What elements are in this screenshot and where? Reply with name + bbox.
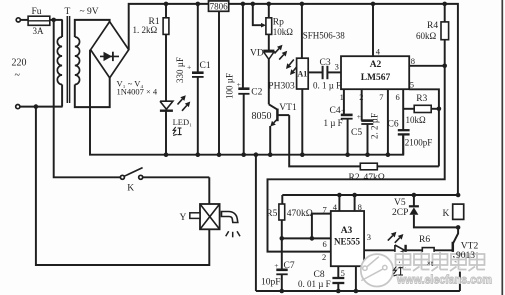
svg-text:8: 8	[358, 202, 362, 212]
svg-text:9013: 9013	[456, 251, 475, 261]
svg-text:5: 5	[341, 268, 345, 278]
svg-text:C2: C2	[251, 87, 262, 97]
svg-text:~ 9V: ~ 9V	[80, 7, 99, 17]
svg-text:470kΩ: 470kΩ	[287, 209, 313, 219]
svg-text:www.elecfans.com: www.elecfans.com	[396, 273, 492, 287]
svg-text:2: 2	[359, 92, 363, 102]
svg-text:4: 4	[376, 46, 381, 56]
svg-text:LM567: LM567	[361, 73, 391, 83]
svg-text:K: K	[127, 183, 134, 193]
svg-text:7806: 7806	[210, 2, 229, 12]
svg-text:C4: C4	[330, 106, 341, 116]
svg-text:6: 6	[323, 239, 327, 249]
svg-text:Fu: Fu	[32, 7, 42, 17]
svg-text:LED₁: LED₁	[173, 117, 193, 127]
svg-text:1N4007 × 4: 1N4007 × 4	[117, 87, 158, 97]
svg-text:+: +	[357, 112, 361, 121]
svg-text:3: 3	[367, 232, 371, 242]
svg-text:1: 1	[340, 92, 344, 102]
svg-text:×t: ×t	[427, 259, 435, 268]
svg-text:NE555: NE555	[334, 237, 361, 247]
svg-text:8: 8	[411, 56, 415, 66]
svg-text:R4: R4	[427, 21, 438, 31]
svg-text:R2: R2	[349, 173, 360, 183]
svg-text:VD: VD	[250, 48, 264, 58]
svg-text:C7: C7	[284, 261, 295, 271]
svg-text:2CP: 2CP	[392, 208, 408, 218]
svg-text:R6: R6	[419, 235, 430, 245]
svg-text:7: 7	[379, 92, 383, 102]
svg-text:4: 4	[333, 202, 338, 212]
svg-text:R3: R3	[416, 94, 427, 104]
svg-text:1 µ F: 1 µ F	[324, 118, 343, 128]
svg-text:+: +	[237, 80, 241, 89]
svg-text:+: +	[274, 261, 278, 270]
svg-text:47kΩ: 47kΩ	[364, 173, 385, 183]
svg-text:C1: C1	[200, 61, 211, 71]
svg-text:Y: Y	[180, 213, 187, 223]
svg-text:5: 5	[410, 80, 414, 90]
svg-text:K: K	[443, 209, 450, 219]
svg-text:A2: A2	[370, 60, 382, 70]
svg-text:A3: A3	[341, 226, 353, 236]
svg-text:+: +	[341, 106, 345, 115]
svg-text:0. 1 µ F: 0. 1 µ F	[313, 81, 341, 91]
svg-text:10pF: 10pF	[261, 277, 281, 287]
svg-text:VT2: VT2	[461, 241, 479, 251]
svg-text:6: 6	[396, 92, 400, 102]
svg-text:220: 220	[12, 58, 27, 69]
svg-text:~: ~	[15, 70, 21, 81]
svg-text:A1: A1	[298, 70, 308, 79]
svg-text:2: 2	[322, 252, 326, 262]
svg-text:60kΩ: 60kΩ	[416, 31, 437, 41]
svg-text:V5: V5	[394, 198, 406, 208]
svg-text:C3: C3	[320, 58, 331, 68]
svg-text:330 µF: 330 µF	[175, 57, 185, 83]
svg-text:2100pF: 2100pF	[405, 137, 433, 147]
svg-text:T: T	[65, 7, 71, 17]
svg-text:VT1: VT1	[279, 103, 297, 113]
svg-text:2. 2 µF: 2. 2 µF	[370, 113, 380, 139]
svg-text:100 µF: 100 µF	[224, 73, 234, 99]
svg-text:PH303: PH303	[268, 81, 295, 91]
svg-text:SFH506-38: SFH506-38	[303, 30, 346, 40]
svg-text:C5: C5	[351, 128, 362, 138]
svg-text:7: 7	[323, 205, 327, 215]
svg-text:3: 3	[335, 61, 339, 71]
svg-text:1. 2kΩ: 1. 2kΩ	[133, 25, 158, 35]
svg-text:10kΩ: 10kΩ	[273, 27, 294, 37]
svg-text:10kΩ: 10kΩ	[406, 115, 427, 125]
svg-text:0. 01 µ F: 0. 01 µ F	[298, 279, 331, 289]
svg-text:3A: 3A	[33, 26, 45, 36]
svg-text:R5: R5	[266, 209, 277, 219]
svg-text:C6: C6	[388, 120, 399, 130]
svg-text:+: +	[187, 62, 191, 71]
svg-text:8050: 8050	[252, 111, 272, 122]
